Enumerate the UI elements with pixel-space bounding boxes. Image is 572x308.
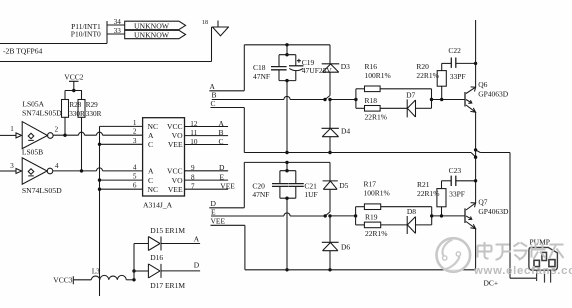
- svg-text:VEE: VEE: [211, 217, 226, 226]
- svg-text:R29: R29: [86, 101, 98, 109]
- diode D6: [329, 216, 331, 242]
- pin 33: [107, 33, 125, 35]
- wire Q7 emitter down to rail VEE: [475, 229, 477, 270]
- node Q7 gate: [430, 214, 433, 217]
- svg-text:1UF: 1UF: [304, 190, 317, 199]
- capacitor C22: [442, 62, 452, 64]
- node Q6 gate: [430, 98, 433, 101]
- svg-text:D3: D3: [341, 62, 350, 71]
- wire collector feed: [475, 20, 477, 87]
- svg-text:330R: 330R: [86, 110, 102, 118]
- resistor R18: [356, 107, 365, 109]
- svg-text:R19: R19: [365, 213, 378, 222]
- diode D4: [329, 100, 331, 129]
- svg-text:B: B: [219, 128, 224, 137]
- svg-text:22R1%: 22R1%: [417, 189, 440, 198]
- svg-text:Q6: Q6: [478, 80, 487, 89]
- node gate1/R28: [63, 134, 66, 137]
- pin 34: [107, 24, 125, 26]
- svg-text:47NF: 47NF: [252, 190, 269, 199]
- svg-text:7: 7: [191, 183, 195, 191]
- svg-text:R18: R18: [365, 96, 378, 105]
- wire vertical bus left of IC: [99, 126, 101, 296]
- wire rail C mid with jog: [244, 150, 510, 157]
- svg-text:4: 4: [55, 162, 59, 170]
- svg-text:D15 ER1M: D15 ER1M: [150, 226, 185, 235]
- IC left pin wires 1,3,5,6: [100, 126, 143, 189]
- wire D6 to rail VEE: [329, 251, 331, 270]
- svg-text:D8: D8: [407, 207, 416, 216]
- svg-text:18: 18: [202, 20, 208, 26]
- svg-text:NC: NC: [148, 122, 159, 131]
- svg-text:UNKNOW: UNKNOW: [134, 21, 170, 30]
- transistor Q7: [464, 208, 466, 223]
- diode D3: [329, 45, 331, 64]
- svg-text:100R1%: 100R1%: [365, 71, 391, 80]
- svg-text:D6: D6: [341, 243, 350, 252]
- svg-text:LS05A: LS05A: [22, 99, 44, 108]
- node gate2/R29: [80, 169, 83, 172]
- svg-text:10: 10: [190, 138, 198, 146]
- svg-text:47NF: 47NF: [253, 72, 270, 81]
- wire rail D lower: [244, 161, 330, 163]
- svg-text:VCC2: VCC2: [64, 72, 83, 81]
- wire VCC2 bracket: [65, 91, 82, 100]
- capacitor C19: [289, 65, 303, 67]
- wire pin18 to ground: [0, 27, 212, 62]
- svg-text:VEE: VEE: [220, 182, 235, 191]
- svg-text:R20: R20: [416, 62, 429, 71]
- capacitor C20: [272, 184, 288, 187]
- wire C20/C21 loop bottom: [280, 197, 296, 199]
- svg-text:DC+: DC+: [484, 278, 499, 287]
- svg-text:NC: NC: [148, 185, 159, 194]
- svg-text:PUMP: PUMP: [530, 238, 550, 247]
- svg-text:C22: C22: [448, 46, 461, 55]
- capacitor C18: [271, 67, 287, 70]
- svg-text:A: A: [210, 82, 216, 91]
- wire Q6 emitter down: [475, 112, 477, 203]
- wire center stem to rail VEE: [286, 198, 288, 270]
- svg-text:Q7: Q7: [478, 197, 487, 206]
- net flag UNKNOW 1: [125, 21, 186, 29]
- svg-text:C: C: [219, 137, 224, 146]
- wire gate1 out to IC pin2 with hops: [53, 132, 143, 135]
- svg-text:34: 34: [114, 18, 122, 26]
- svg-text:9: 9: [191, 164, 195, 172]
- svg-text:GP4063D: GP4063D: [478, 207, 509, 216]
- wire top rail A: [244, 44, 330, 46]
- svg-text:A: A: [148, 167, 154, 176]
- svg-text:C: C: [211, 99, 216, 108]
- svg-text:R28: R28: [69, 101, 81, 109]
- node L3 right: [132, 278, 135, 281]
- svg-text:UNKNOW: UNKNOW: [134, 31, 170, 40]
- svg-text:D4: D4: [341, 127, 350, 136]
- svg-text:D17 ER1M: D17 ER1M: [150, 281, 185, 290]
- resistor R20: [437, 71, 446, 87]
- diode D5: [329, 162, 331, 181]
- svg-text:D: D: [219, 163, 225, 172]
- svg-text:11: 11: [190, 129, 197, 137]
- svg-text:P10/INT0: P10/INT0: [71, 30, 101, 39]
- svg-text:E: E: [211, 208, 216, 217]
- wire cap stem: [286, 45, 288, 55]
- diode D7: [407, 99, 415, 117]
- svg-text:SN74LS05D: SN74LS05D: [22, 186, 62, 195]
- svg-text:D: D: [194, 261, 200, 270]
- svg-text:D16: D16: [150, 253, 163, 262]
- wire rail VEE bottom: [245, 269, 476, 271]
- resistor R16: [356, 88, 365, 90]
- svg-text:GP4063D: GP4063D: [478, 89, 509, 98]
- svg-text:E: E: [220, 173, 225, 182]
- diode D17: [134, 270, 148, 272]
- svg-text:22R1%: 22R1%: [365, 229, 388, 238]
- svg-text:D5: D5: [339, 181, 348, 190]
- svg-text:A: A: [148, 131, 154, 140]
- svg-text:VO: VO: [172, 176, 183, 185]
- capacitor C21: [288, 184, 304, 187]
- svg-text:-2B TQFP64: -2B TQFP64: [3, 46, 43, 55]
- svg-text:VCC: VCC: [167, 167, 183, 176]
- svg-text:6: 6: [133, 182, 137, 190]
- svg-text:22R1%: 22R1%: [416, 71, 439, 80]
- svg-text:C: C: [148, 140, 153, 149]
- net flag UNKNOW 2: [125, 30, 186, 38]
- svg-text:R16: R16: [365, 62, 378, 71]
- svg-text:1: 1: [10, 125, 14, 133]
- svg-text:www.elecfans.com: www.elecfans.com: [473, 265, 572, 277]
- svg-text:D7: D7: [406, 91, 415, 100]
- wire C18/C19 loop bottom: [279, 80, 296, 82]
- wire C20/C21 loop top: [280, 171, 296, 184]
- wire C18/C19 loop top: [279, 55, 296, 67]
- wire node E to R17/R19: [330, 215, 356, 217]
- svg-text:VEE: VEE: [168, 140, 183, 149]
- inverter gate LS05B: [0, 170, 16, 172]
- svg-text:A: A: [194, 235, 200, 244]
- svg-text:VO: VO: [172, 131, 183, 140]
- watermark logo circle: [437, 238, 471, 272]
- svg-text:A: A: [219, 119, 225, 128]
- inverter gate LS05A: [0, 134, 16, 136]
- svg-text:C18: C18: [253, 63, 266, 72]
- resistor R29: [78, 100, 85, 118]
- MCU U? box edge: [0, 21, 107, 44]
- watermark CJK text: [478, 242, 564, 260]
- svg-text:LS05B: LS05B: [22, 148, 43, 157]
- svg-text:3: 3: [10, 162, 14, 170]
- svg-text:5: 5: [133, 173, 137, 181]
- node R17/R19 left: [354, 214, 357, 217]
- svg-text:8: 8: [191, 174, 195, 182]
- resistor R17: [356, 206, 365, 208]
- svg-text:L3: L3: [92, 267, 100, 275]
- svg-text:C: C: [148, 176, 153, 185]
- IC U-A314J box: [143, 118, 185, 196]
- node R16/R18 left: [354, 98, 357, 101]
- svg-text:100R1%: 100R1%: [364, 188, 390, 197]
- svg-text:22R1%: 22R1%: [365, 113, 388, 122]
- wire right rail to connector: [510, 153, 537, 279]
- wire center stem down to rail C: [286, 81, 288, 153]
- svg-text:R17: R17: [364, 179, 377, 188]
- wire gate2 out to IC pin4 with hop: [53, 168, 143, 171]
- svg-text:3: 3: [133, 137, 137, 145]
- svg-text:2: 2: [55, 125, 59, 133]
- resistor R19: [356, 224, 365, 226]
- svg-text:C23: C23: [449, 166, 462, 175]
- svg-text:33: 33: [114, 27, 122, 35]
- svg-text:4: 4: [133, 163, 137, 171]
- wire D3 to node B jog: [325, 72, 330, 99]
- ground: [212, 21, 230, 36]
- diode D8: [407, 216, 415, 234]
- svg-text:1: 1: [133, 119, 137, 127]
- wire node B to R16/R18: [330, 99, 356, 101]
- svg-text:R21: R21: [417, 180, 430, 189]
- transistor Q6: [464, 92, 466, 107]
- svg-text:12: 12: [190, 120, 198, 128]
- svg-text:2: 2: [133, 128, 137, 136]
- resistor R21: [437, 189, 446, 207]
- node VCC2 junction: [72, 89, 75, 92]
- wire D5 to node E jog: [325, 189, 330, 216]
- IC right pin wires: [185, 127, 229, 190]
- wire R28 to gate1 output: [64, 117, 66, 135]
- wire D4 to rail C: [329, 137, 331, 153]
- wire R29 down to gate2 output: [81, 117, 83, 171]
- svg-text:VCC: VCC: [167, 122, 183, 131]
- svg-text:33PF: 33PF: [450, 72, 466, 81]
- capacitor C23: [442, 180, 452, 182]
- svg-text:VEE: VEE: [168, 185, 183, 194]
- svg-text:VCC3: VCC3: [53, 275, 72, 284]
- svg-text:SN74LS05D: SN74LS05D: [22, 108, 62, 117]
- svg-text:A314J_A: A314J_A: [143, 201, 173, 210]
- resistor R28: [62, 100, 69, 118]
- svg-text:33PF: 33PF: [449, 190, 465, 199]
